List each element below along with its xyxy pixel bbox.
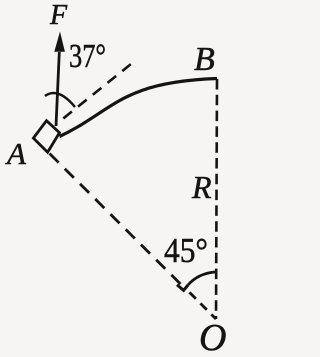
svg-text:F: F <box>49 0 68 31</box>
svg-text:45°: 45° <box>164 231 208 270</box>
svg-text:B: B <box>194 41 215 78</box>
svg-text:A: A <box>5 136 27 171</box>
svg-text:R: R <box>191 169 212 205</box>
svg-text:37°: 37° <box>69 38 106 75</box>
svg-text:O: O <box>199 317 226 357</box>
